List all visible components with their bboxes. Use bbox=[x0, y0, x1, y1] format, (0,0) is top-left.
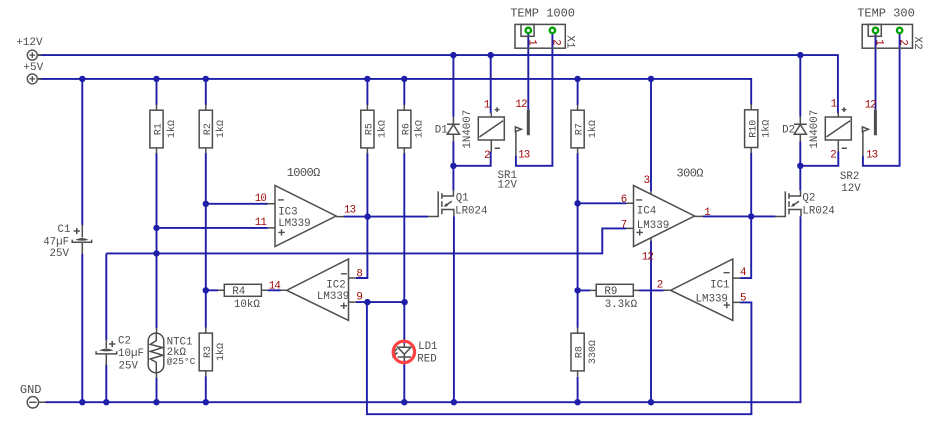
svg-text:SR2: SR2 bbox=[840, 171, 859, 183]
svg-text:R8: R8 bbox=[575, 346, 586, 358]
svg-text:LM339: LM339 bbox=[317, 291, 349, 303]
svg-text:330Ω: 330Ω bbox=[588, 340, 599, 364]
svg-text:LR024: LR024 bbox=[802, 205, 834, 217]
svg-text:2: 2 bbox=[657, 280, 663, 292]
svg-text:R7: R7 bbox=[575, 123, 586, 135]
svg-text:3: 3 bbox=[644, 175, 650, 187]
svg-text:Q1: Q1 bbox=[456, 193, 469, 205]
svg-text:IC2: IC2 bbox=[326, 280, 345, 292]
svg-text:1kΩ: 1kΩ bbox=[166, 120, 178, 138]
svg-text:IC4: IC4 bbox=[637, 206, 656, 218]
svg-text:+12V: +12V bbox=[16, 37, 43, 49]
svg-text:2: 2 bbox=[897, 39, 909, 45]
svg-text:6: 6 bbox=[621, 194, 627, 206]
svg-text:C2: C2 bbox=[118, 336, 131, 348]
svg-text:10: 10 bbox=[255, 193, 267, 205]
svg-text:12V: 12V bbox=[498, 180, 518, 192]
svg-text:C1: C1 bbox=[58, 224, 71, 236]
svg-text:47µF: 47µF bbox=[43, 236, 69, 248]
svg-text:1N4007: 1N4007 bbox=[809, 110, 821, 149]
svg-text:IC3: IC3 bbox=[278, 207, 297, 219]
svg-text:R10: R10 bbox=[748, 120, 759, 138]
svg-text:D1: D1 bbox=[435, 124, 448, 136]
svg-text:TEMP 1000: TEMP 1000 bbox=[510, 6, 575, 20]
svg-text:8: 8 bbox=[356, 269, 362, 281]
svg-text:R3: R3 bbox=[203, 346, 214, 358]
svg-text:2: 2 bbox=[549, 39, 561, 45]
svg-text:11: 11 bbox=[255, 217, 267, 229]
svg-text:5: 5 bbox=[740, 293, 746, 305]
svg-text:LD1: LD1 bbox=[418, 341, 437, 353]
svg-text:1: 1 bbox=[831, 99, 837, 111]
svg-text:R1: R1 bbox=[154, 123, 165, 135]
svg-text:R9: R9 bbox=[604, 286, 617, 298]
svg-text:2: 2 bbox=[830, 150, 836, 162]
svg-text:1kΩ: 1kΩ bbox=[761, 120, 773, 138]
svg-text:R2: R2 bbox=[203, 123, 214, 135]
svg-text:IC1: IC1 bbox=[710, 280, 729, 292]
svg-text:10kΩ: 10kΩ bbox=[234, 299, 260, 311]
svg-text:1kΩ: 1kΩ bbox=[215, 120, 227, 138]
svg-text:1000Ω: 1000Ω bbox=[287, 166, 320, 180]
svg-text:10µF: 10µF bbox=[118, 348, 144, 360]
svg-text:1kΩ: 1kΩ bbox=[377, 120, 389, 138]
svg-text:12: 12 bbox=[515, 99, 527, 111]
svg-text:25V: 25V bbox=[119, 361, 139, 373]
svg-text:+5V: +5V bbox=[23, 62, 43, 74]
svg-text:1kΩ: 1kΩ bbox=[587, 120, 599, 138]
svg-text:LM339: LM339 bbox=[637, 220, 669, 232]
svg-text:1kΩ: 1kΩ bbox=[414, 120, 426, 138]
svg-text:R4: R4 bbox=[232, 286, 245, 298]
svg-text:2: 2 bbox=[484, 150, 490, 162]
svg-text:1N4007: 1N4007 bbox=[462, 110, 474, 149]
svg-text:R5: R5 bbox=[365, 123, 376, 135]
svg-text:4: 4 bbox=[740, 267, 746, 279]
svg-text:300Ω: 300Ω bbox=[677, 166, 704, 180]
svg-text:Q2: Q2 bbox=[802, 192, 815, 204]
svg-text:@25°C: @25°C bbox=[167, 356, 196, 367]
svg-text:3.3kΩ: 3.3kΩ bbox=[605, 299, 638, 311]
svg-text:9: 9 bbox=[356, 292, 362, 304]
svg-text:LM339: LM339 bbox=[278, 218, 310, 230]
svg-text:R6: R6 bbox=[401, 123, 412, 135]
svg-text:12V: 12V bbox=[841, 183, 861, 195]
svg-text:7: 7 bbox=[621, 220, 627, 232]
svg-text:1: 1 bbox=[525, 39, 537, 45]
svg-text:1: 1 bbox=[873, 39, 885, 45]
svg-text:12: 12 bbox=[642, 251, 654, 263]
svg-text:RED: RED bbox=[417, 354, 436, 366]
svg-text:1kΩ: 1kΩ bbox=[215, 343, 227, 361]
svg-text:D2: D2 bbox=[782, 125, 795, 137]
svg-text:13: 13 bbox=[866, 150, 878, 162]
svg-text:25V: 25V bbox=[50, 248, 70, 260]
svg-text:13: 13 bbox=[518, 149, 530, 161]
svg-text:13: 13 bbox=[344, 205, 356, 217]
svg-text:GND: GND bbox=[20, 383, 42, 397]
svg-text:X1: X1 bbox=[563, 35, 575, 49]
svg-text:12: 12 bbox=[865, 100, 877, 112]
svg-text:LR024: LR024 bbox=[455, 206, 487, 218]
svg-text:1: 1 bbox=[484, 100, 490, 112]
svg-text:14: 14 bbox=[269, 280, 281, 292]
svg-text:TEMP 300: TEMP 300 bbox=[857, 7, 915, 21]
svg-text:1: 1 bbox=[704, 207, 710, 219]
svg-text:LM339: LM339 bbox=[696, 293, 728, 305]
svg-text:X2: X2 bbox=[911, 37, 923, 50]
